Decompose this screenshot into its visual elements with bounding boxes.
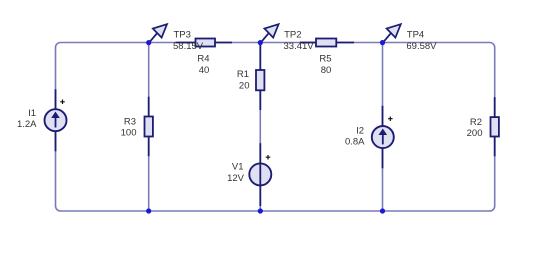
- svg-text:I1: I1: [28, 108, 36, 119]
- test point TP4 probe arrow: [383, 24, 401, 43]
- svg-text:20: 20: [239, 81, 250, 92]
- node bottom junction R3: [146, 208, 151, 213]
- wire R1/V1 branch: [259, 43, 261, 212]
- voltage source V1: [249, 143, 271, 206]
- svg-text:TP2: TP2: [284, 30, 301, 41]
- node bottom junction I2: [380, 208, 385, 213]
- svg-text:I2: I2: [356, 125, 364, 136]
- svg-text:58.15V: 58.15V: [173, 41, 204, 52]
- current source I2: [372, 106, 394, 169]
- svg-text:0.8A: 0.8A: [345, 137, 365, 148]
- resistor R2: [491, 97, 499, 156]
- svg-text:R2: R2: [470, 117, 482, 128]
- svg-text:12V: 12V: [227, 173, 245, 184]
- svg-text:69.58V: 69.58V: [406, 41, 437, 52]
- resistor R4: [176, 39, 232, 47]
- svg-text:TP4: TP4: [407, 30, 424, 41]
- node bottom junction V1: [258, 208, 263, 213]
- svg-text:33.41V: 33.41V: [284, 41, 315, 52]
- svg-text:1.2A: 1.2A: [17, 119, 37, 130]
- test point TP2 probe arrow: [260, 24, 278, 43]
- svg-text:R3: R3: [124, 116, 136, 127]
- svg-text:100: 100: [121, 127, 137, 138]
- node TP3 junction: [146, 40, 151, 45]
- svg-text:80: 80: [321, 65, 332, 76]
- svg-text:TP3: TP3: [174, 30, 191, 41]
- wire I2 branch: [382, 43, 384, 212]
- node TP4 junction: [380, 40, 385, 45]
- svg-text:40: 40: [199, 65, 210, 76]
- resistor R1: [256, 43, 264, 110]
- current source I1: [45, 89, 67, 151]
- svg-text:R5: R5: [319, 54, 331, 65]
- resistor R3: [145, 97, 153, 157]
- svg-text:R4: R4: [197, 54, 209, 65]
- wire outer loop: [56, 43, 495, 212]
- wire R3 branch: [148, 43, 150, 212]
- svg-text:200: 200: [467, 128, 483, 139]
- svg-text:R1: R1: [237, 69, 249, 80]
- test point TP3 probe arrow: [149, 24, 167, 43]
- svg-text:V1: V1: [232, 162, 244, 173]
- node TP2 junction: [258, 40, 263, 45]
- resistor R5: [300, 39, 354, 47]
